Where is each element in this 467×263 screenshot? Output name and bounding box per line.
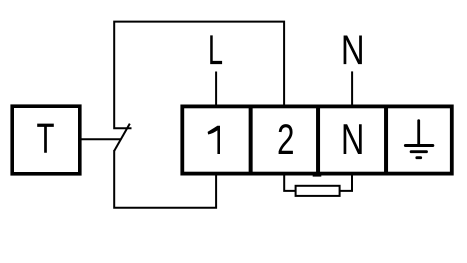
wire from T to switch bbox=[80, 138, 121, 140]
switch contact blade bbox=[114, 124, 130, 151]
wire: terminal N to resistor bbox=[340, 174, 352, 191]
node L (line) label bbox=[210, 35, 222, 64]
divider N|earth bbox=[384, 106, 388, 173]
divider 2|N bbox=[316, 106, 320, 175]
terminal N label bbox=[344, 124, 362, 154]
divider 1|2 bbox=[249, 106, 253, 173]
node N (neutral) label bbox=[344, 36, 362, 65]
wire: switch bottom to terminal 1 bottom bbox=[114, 150, 216, 208]
wire: terminal 2 to resistor bbox=[284, 174, 295, 191]
wire: L to terminal 1 bbox=[215, 72, 217, 107]
terminal block outline bbox=[182, 106, 452, 173]
terminal 1 label bbox=[208, 126, 220, 154]
label T (thermostat) bbox=[37, 124, 54, 153]
thermostat T bbox=[12, 106, 80, 174]
wire: N to terminal N bbox=[351, 71, 353, 106]
earth ground symbol bbox=[405, 121, 432, 158]
resistor (bridge element) bbox=[296, 186, 340, 196]
terminal 2 label bbox=[279, 124, 293, 154]
wire: switch top contact to terminal 2 (top loop) bbox=[114, 22, 284, 129]
